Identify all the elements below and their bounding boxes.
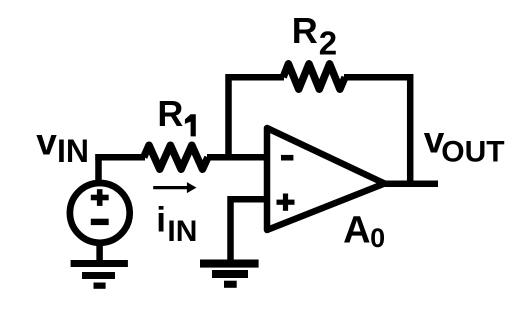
- voltage source minus polarity mark: [91, 219, 109, 225]
- svg-text:2: 2: [319, 24, 337, 61]
- wire: R1 to inverting input (node at junction): [207, 154, 268, 161]
- op-amp non-inverting input pin marker +: [277, 200, 295, 205]
- svg-text:i: i: [156, 200, 166, 239]
- wire: non-inverting input down to ground: [231, 199, 267, 260]
- ground (below non-inverting input): [200, 260, 259, 268]
- wire: output from op-amp tip to vOUT: [383, 180, 438, 187]
- voltage source plus polarity mark: [91, 195, 109, 201]
- svg-text:A: A: [343, 210, 370, 252]
- svg-text:IN: IN: [57, 133, 89, 169]
- wire: feedback left vertical from junction node up and right to R2: [229, 77, 285, 160]
- current arrow iIN: [153, 186, 188, 189]
- svg-text:R: R: [157, 93, 183, 134]
- svg-text:OUT: OUT: [441, 135, 504, 168]
- resistor R1: [144, 145, 208, 169]
- op-amp inverting input pin marker -: [281, 155, 293, 161]
- resistor R2: [283, 64, 345, 89]
- voltage source vIN circle: [70, 183, 130, 243]
- op-amp A0 body: [267, 128, 385, 230]
- svg-text:R: R: [292, 10, 318, 51]
- wire: input node from source to R1: [95, 154, 145, 161]
- svg-text:0: 0: [370, 223, 385, 253]
- svg-text:IN: IN: [167, 215, 197, 248]
- wire: riser from voltage source top to input wire: [95, 154, 102, 184]
- wire: feedback from R2 right to output node vertical drop: [344, 77, 410, 184]
- svg-text:v: v: [36, 121, 57, 162]
- ground (below voltage source): [71, 260, 128, 267]
- wire: voltage source bottom to ground: [96, 240, 103, 262]
